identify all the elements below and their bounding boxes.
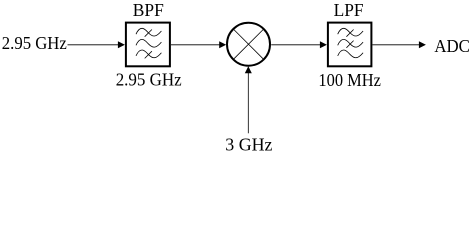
label LPF [334, 0, 364, 20]
LPF symbol wave top (slashed) [338, 28, 363, 36]
filter LPF box [328, 23, 372, 67]
node RF input label 2.95 GHz [2, 33, 67, 53]
LPF symbol wave bottom (pass) [338, 50, 363, 58]
filter BPF box [126, 23, 170, 67]
svg-text:2.95 GHz: 2.95 GHz [2, 33, 67, 53]
BPF symbol wave bottom (slashed) [136, 50, 161, 58]
LPF symbol wave middle (slashed) [338, 39, 363, 47]
value label 100 MHz under LPF [318, 70, 381, 90]
wire mixer to LPF [271, 41, 327, 48]
wire BPF to mixer [171, 41, 226, 48]
svg-text:LPF: LPF [334, 0, 364, 20]
wire LPF to ADC [372, 41, 426, 48]
mixer U1 circle [227, 23, 270, 66]
svg-text:2.95 GHz: 2.95 GHz [116, 70, 182, 90]
BPF symbol wave top (slashed) [136, 28, 161, 36]
wire input to BPF [68, 41, 125, 48]
mixer X cross [233, 29, 263, 59]
BPF symbol wave middle (pass) [136, 39, 161, 47]
svg-text:3 GHz: 3 GHz [225, 134, 272, 154]
svg-text:100 MHz: 100 MHz [318, 70, 381, 90]
svg-text:ADC: ADC [434, 36, 470, 56]
svg-text:BPF: BPF [133, 0, 164, 20]
label BPF [133, 0, 164, 20]
node output label ADC [434, 36, 470, 56]
node LO label 3 GHz [225, 134, 272, 154]
wire LO input from below [245, 66, 252, 133]
value label 2.95 GHz under BPF [116, 70, 182, 90]
